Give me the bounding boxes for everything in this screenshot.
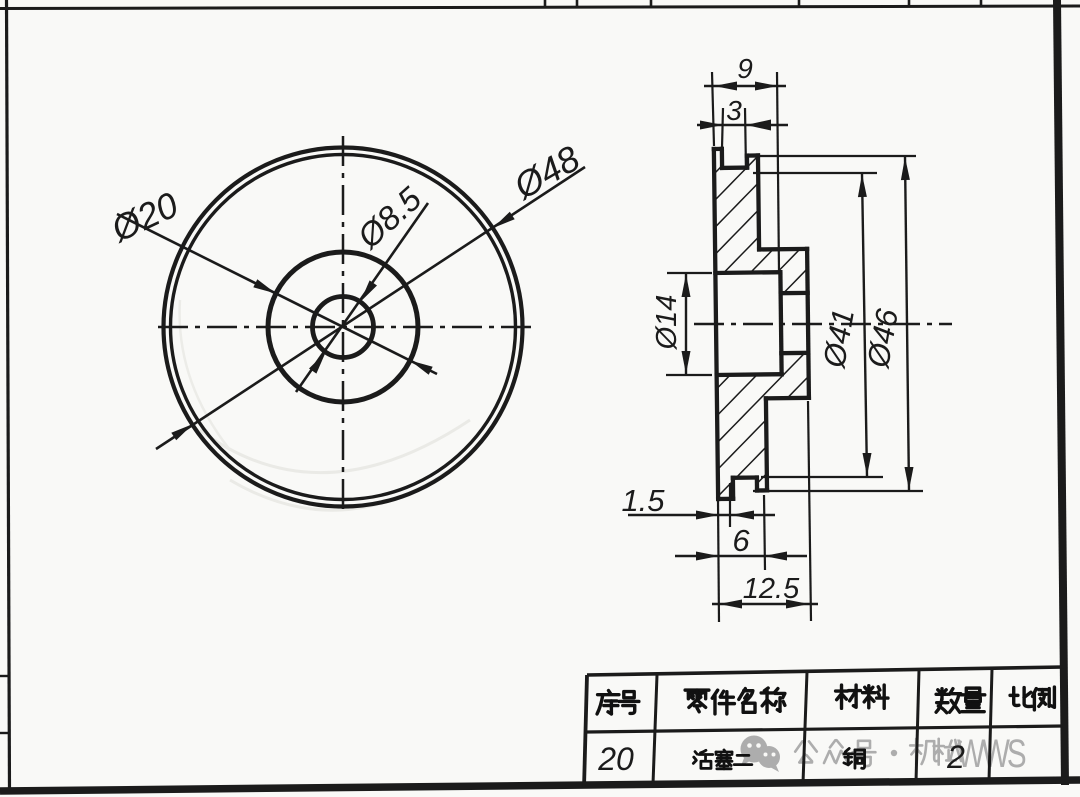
dimension O20 leader line — [117, 214, 437, 374]
front view: horizontal centerline — [158, 326, 532, 329]
svg-text:3: 3 — [726, 95, 742, 126]
front view: faint scan smudge arcs — [200, 420, 470, 473]
dimension 12.5 extension line — [808, 401, 811, 621]
watermark wechat icon — [741, 736, 781, 773]
dimension 9 line — [704, 85, 786, 87]
header cell: 比例 — [1010, 688, 1032, 707]
sheet bottom border — [0, 780, 1080, 791]
dimension 9 extension lines — [712, 72, 714, 146]
dimension 12.5 arrows — [719, 600, 742, 609]
title block left edge — [584, 675, 587, 788]
header cell: 材料 — [836, 685, 861, 708]
dimension 1.5 line — [628, 514, 775, 516]
front view: vertical centerline — [342, 136, 345, 513]
dimension 3 line — [697, 124, 788, 126]
dimension O20 arrows — [253, 279, 276, 293]
dimension O41 line — [862, 174, 867, 476]
title block outer top line — [587, 667, 1063, 675]
dimension O8.5 leader line — [296, 203, 428, 392]
dimension 6 arrows — [696, 552, 719, 561]
section view: hatched part body — [714, 148, 810, 499]
top edge table ticks (sheet above) — [544, 0, 547, 8]
svg-text:Ø14: Ø14 — [651, 295, 683, 351]
svg-text:1.5: 1.5 — [621, 483, 665, 518]
dimension O48 leader line — [156, 167, 585, 449]
title block column line 3 — [916, 670, 919, 782]
dimension 3 extension lines — [722, 108, 723, 148]
data cell: 铜 — [844, 748, 865, 768]
sheet top border — [0, 6, 1080, 9]
header cell: 零件名称 — [685, 690, 709, 712]
svg-text:Ø46: Ø46 — [860, 306, 905, 372]
front view: outer circle O48 (double rim) — [164, 148, 523, 507]
dimension O46 arrows — [901, 157, 910, 180]
title block column line 1 — [653, 675, 657, 784]
front view: circle O8.5 — [313, 297, 374, 358]
front view: circle O20 — [268, 252, 418, 402]
svg-text:20: 20 — [597, 741, 634, 777]
dimension 3 arrows — [700, 121, 723, 130]
dimension O8.5 arrows — [360, 280, 377, 302]
section view: part outline — [714, 149, 718, 499]
dimension O41 extension lines — [753, 172, 877, 174]
dimension O48 arrows — [493, 212, 515, 228]
dimension O14 arrows — [682, 274, 691, 297]
left edge table ticks (sheet to the left) — [0, 675, 9, 677]
dimension O46 line — [905, 157, 909, 490]
dimension 12.5 line — [712, 603, 818, 605]
svg-text:Ø41: Ø41 — [816, 306, 861, 371]
sheet left border — [7, 0, 10, 793]
dimension 1.5 arrows — [696, 511, 719, 520]
dimension O41 arrows — [858, 174, 867, 197]
svg-text:9: 9 — [737, 53, 753, 84]
svg-text:2: 2 — [946, 739, 965, 775]
svg-text:12.5: 12.5 — [743, 573, 800, 605]
svg-text:Ø20: Ø20 — [104, 184, 184, 250]
dimension 1.5 extension line — [729, 483, 731, 527]
title block column line 4 — [989, 669, 992, 781]
title block row separator — [587, 726, 1063, 732]
sheet right border — [1057, 0, 1065, 785]
svg-text:6: 6 — [732, 523, 750, 558]
dimension O46 extension lines — [747, 155, 916, 157]
dimension 6 extension line — [764, 495, 765, 570]
dimension 9 arrows — [714, 82, 737, 91]
front view: inner rim circle — [171, 155, 516, 500]
watermark text 公众号·机械WWS — [795, 741, 817, 762]
dimension 6 line — [675, 555, 807, 557]
svg-text:Ø48: Ø48 — [506, 137, 586, 207]
data cell: 活塞二 — [693, 750, 712, 768]
header cell: 数量 — [936, 689, 961, 713]
header cell: 序号 — [597, 691, 619, 714]
dimension O14 line — [685, 274, 687, 374]
title block column line 2 — [803, 672, 807, 783]
section view: horizontal centerline — [694, 323, 952, 325]
dimension O14 extension lines — [667, 272, 712, 274]
